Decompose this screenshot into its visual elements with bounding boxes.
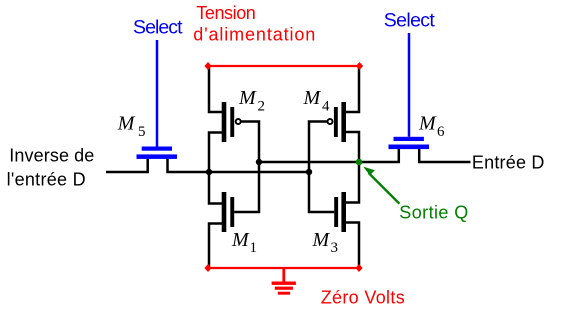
svg-text:l'entrée D: l'entrée D	[7, 170, 86, 190]
svg-text:M: M	[418, 113, 437, 135]
transistor M1 (NMOS)	[222, 192, 235, 232]
node Vdd right diamond	[356, 62, 363, 70]
node inverter2 input junction	[306, 169, 312, 175]
node Sortie Q (green)	[356, 159, 363, 166]
label M1	[231, 229, 257, 256]
wire upper (node Q) from x=259 to M6 left leg	[259, 149, 399, 163]
label M4	[303, 87, 331, 114]
label M2	[238, 87, 265, 114]
wire from M6 right leg to Entrée D	[419, 149, 470, 163]
wire gates of M2/M1 to upper wire (vertical x=259)	[234, 122, 259, 213]
label M3	[312, 229, 339, 256]
arrow Sortie Q pointer (green)	[363, 167, 399, 204]
svg-text:M: M	[303, 87, 322, 109]
node Vdd left diamond	[204, 62, 211, 70]
wire M3 source to ground rail	[346, 223, 359, 269]
label M6	[418, 113, 445, 140]
wire M1 source to ground rail	[209, 224, 222, 269]
wire M4 source to Vdd (right vertical + top stub)	[346, 66, 359, 112]
svg-text:d'alimentation: d'alimentation	[193, 24, 315, 44]
svg-text:M: M	[231, 229, 250, 251]
svg-text:6: 6	[437, 124, 445, 140]
wire from Inverse-de-D stub to M5 left leg	[106, 159, 148, 172]
svg-text:Select: Select	[133, 17, 183, 39]
svg-text:Tension: Tension	[196, 3, 256, 23]
node ground-rail right diamond	[355, 264, 362, 272]
svg-text:3: 3	[331, 240, 339, 256]
svg-text:M: M	[117, 113, 136, 135]
svg-text:M: M	[238, 87, 257, 109]
wire M2 source to Vdd (left vertical + top stub)	[209, 66, 222, 112]
wire gates of M4/M3 to lower wire (vertical x=309)	[309, 122, 334, 213]
ground symbol (red)	[272, 268, 296, 295]
svg-text:2: 2	[258, 98, 266, 114]
svg-text:Select: Select	[384, 9, 436, 31]
transistor M6 (pass gate, blue)	[389, 33, 430, 149]
wire Vdd rail (red, top)	[208, 65, 360, 67]
label Inverse de l'entrée D (black)	[7, 146, 95, 190]
label M5	[117, 113, 146, 140]
wire M2 drain down through node to M1 drain	[209, 133, 222, 204]
wire M4 drain down through node Q to M3 drain	[346, 132, 359, 203]
wire ground rail (red, bottom)	[208, 267, 359, 269]
svg-text:Zéro Volts: Zéro Volts	[321, 287, 405, 307]
svg-text:Sortie Q: Sortie Q	[399, 202, 468, 222]
transistor M2 (PMOS)	[222, 102, 241, 142]
node ground-rail left diamond	[204, 264, 211, 272]
wire select line right	[408, 33, 411, 137]
svg-text:1: 1	[250, 240, 258, 256]
label Tension d'alimentation (red)	[193, 3, 315, 44]
transistor M5 (pass gate, blue)	[137, 40, 178, 159]
svg-text:Entrée D: Entrée D	[472, 152, 545, 172]
node inverter1 output junction	[206, 169, 212, 175]
node inverter1 input junction	[256, 159, 262, 165]
svg-text:4: 4	[322, 98, 330, 114]
wire lower (node Q-bar) from M5 right leg to x=309	[168, 159, 310, 172]
svg-text:5: 5	[138, 124, 146, 140]
svg-text:M: M	[312, 229, 331, 251]
transistor M4 (PMOS)	[328, 102, 347, 142]
svg-text:Inverse de: Inverse de	[9, 146, 94, 166]
wire select line left	[156, 40, 159, 147]
transistor M3 (NMOS)	[334, 192, 346, 232]
